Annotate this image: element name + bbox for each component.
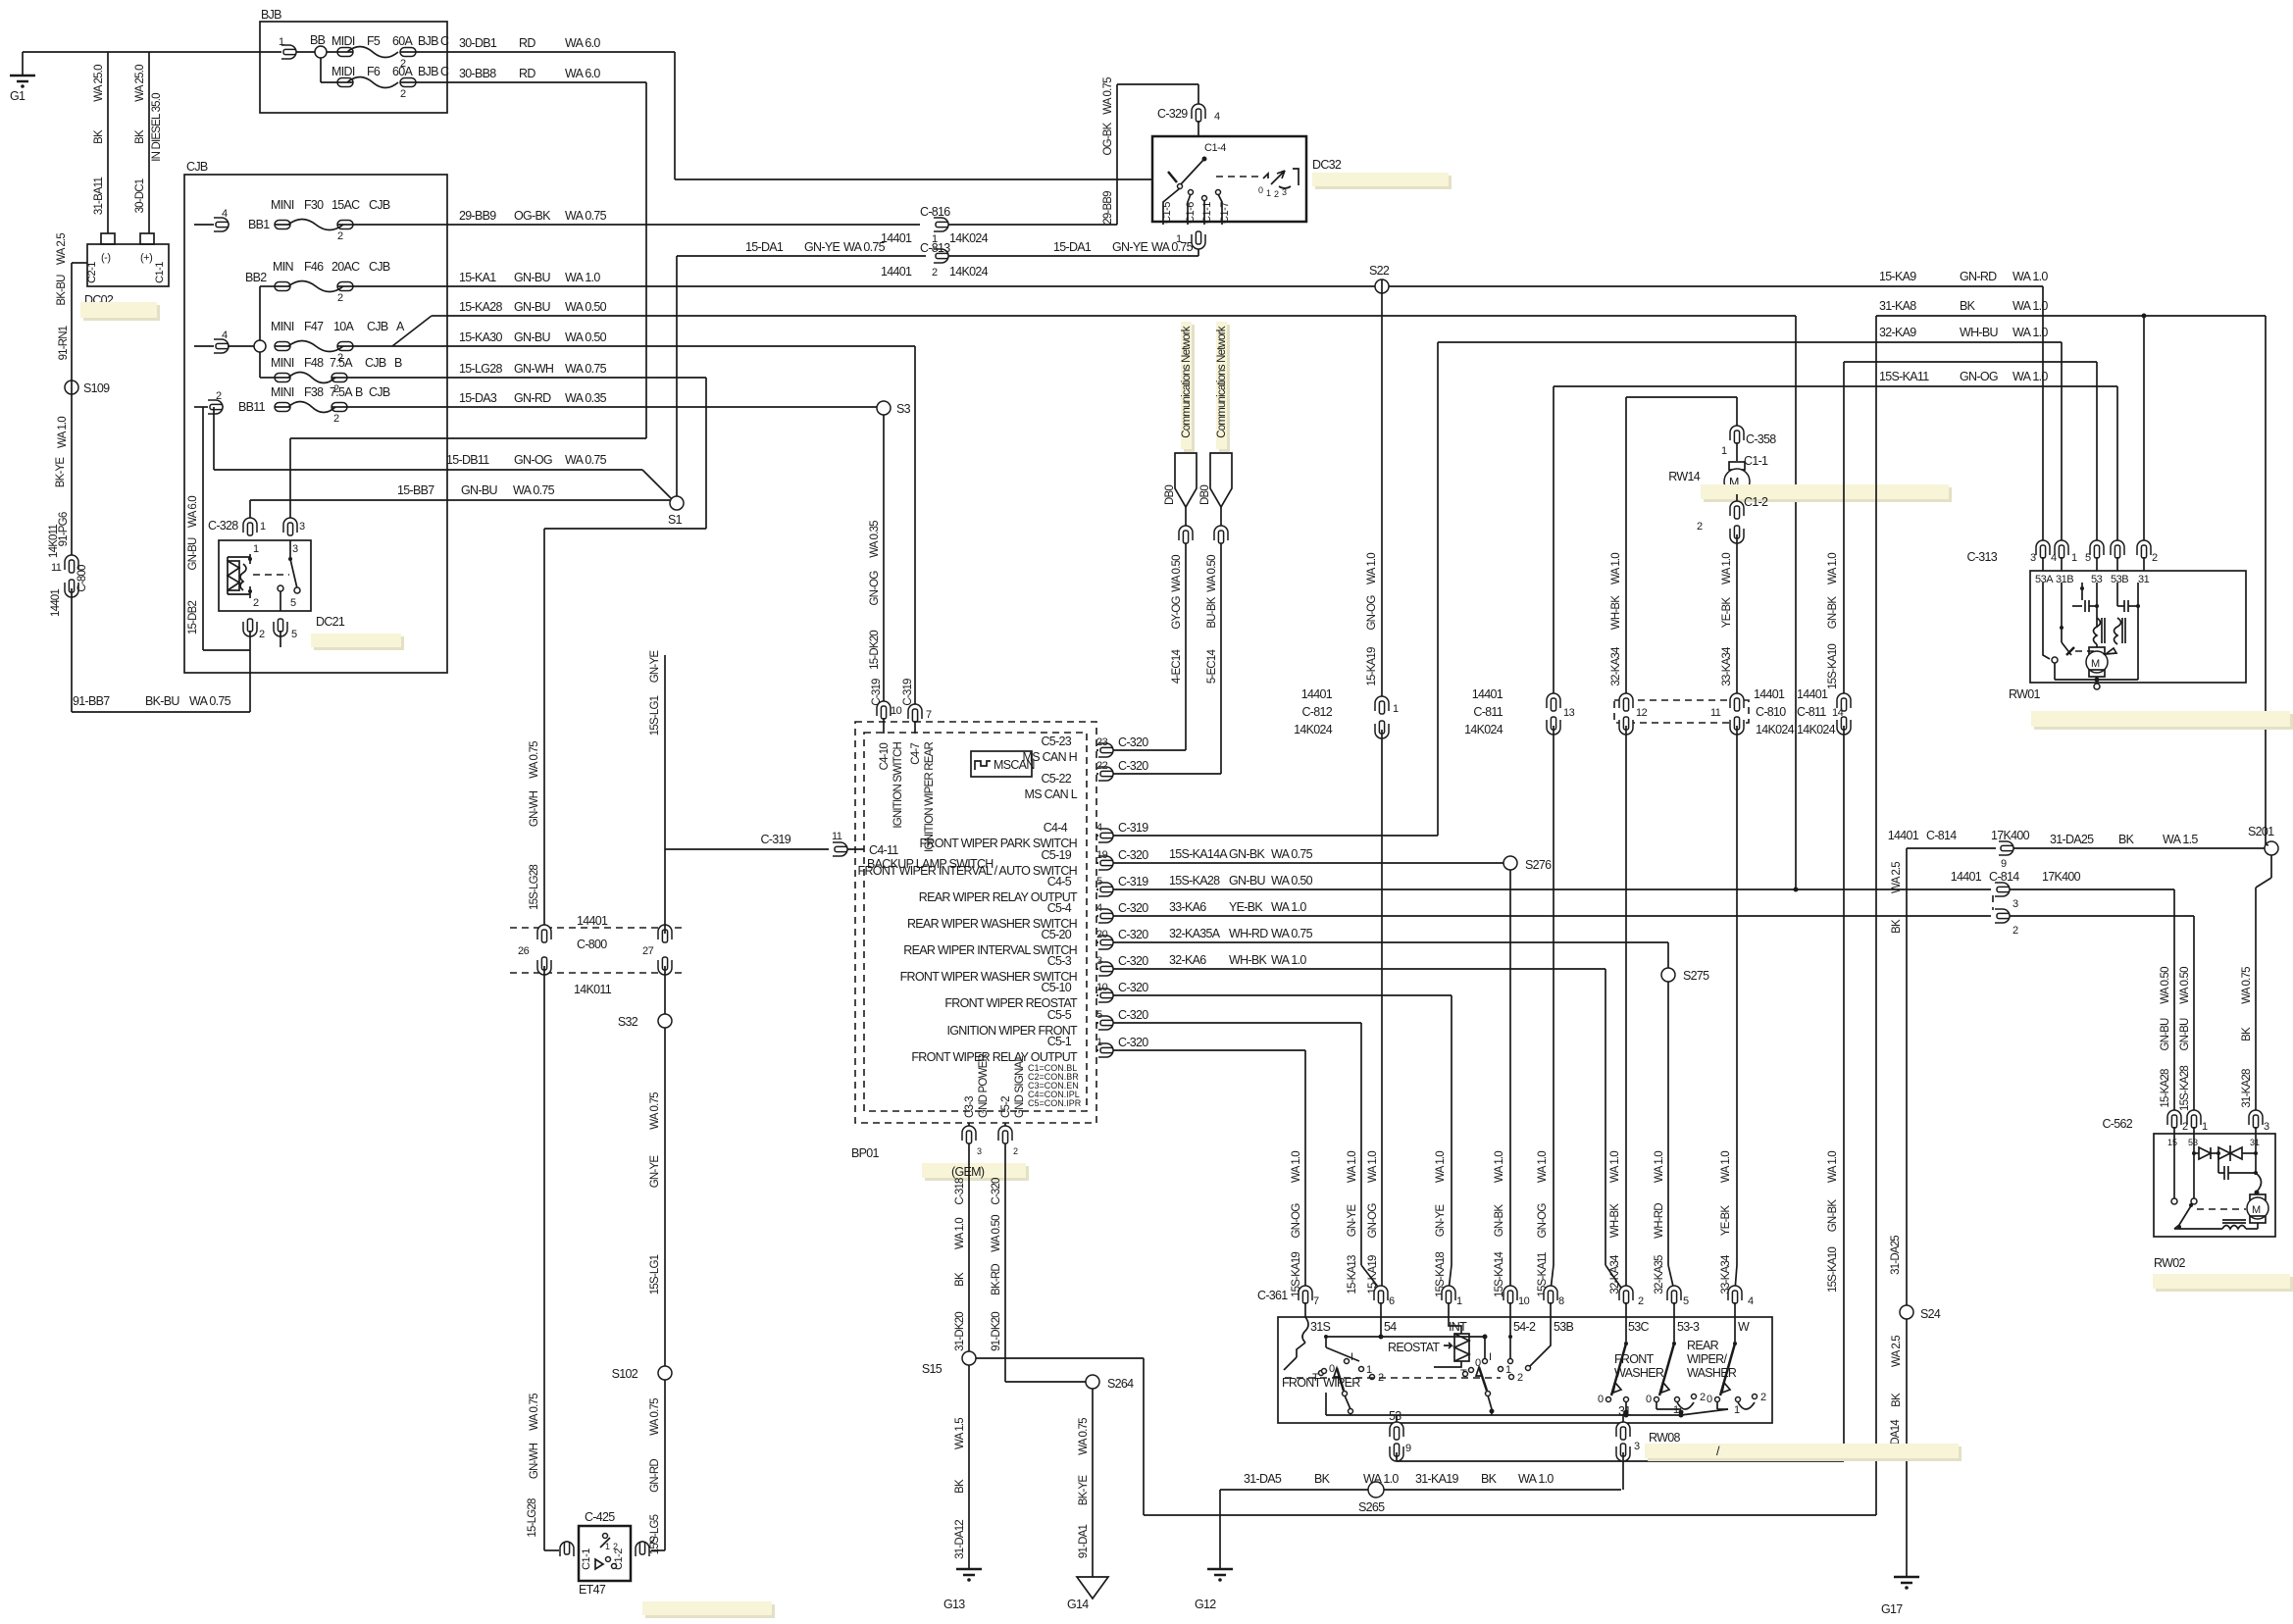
svg-text:S275: S275 [1683, 969, 1709, 983]
svg-text:M: M [2252, 1204, 2261, 1216]
svg-text:10A: 10A [333, 320, 355, 333]
svg-text:15S-KA28: 15S-KA28 [1169, 874, 1220, 888]
svg-text:WA 0.50: WA 0.50 [565, 300, 607, 314]
svg-text:WIPER/: WIPER/ [1687, 1352, 1727, 1366]
svg-text:WA 0.50: WA 0.50 [2160, 967, 2171, 1004]
svg-text:33-KA34: 33-KA34 [1721, 646, 1733, 686]
GEM inner dashed box [864, 733, 1087, 1111]
wire relay pin5 down [280, 631, 281, 647]
svg-text:1: 1 [1393, 703, 1399, 715]
svg-text:C-318: C-318 [954, 1178, 966, 1205]
svg-text:BK: BK [93, 129, 105, 144]
svg-text:14401: 14401 [577, 914, 608, 928]
svg-text:GN-RD: GN-RD [1960, 270, 1997, 283]
wire 29-BB9 [447, 209, 920, 225]
connector C-813 [881, 231, 989, 279]
svg-text:C-320: C-320 [1118, 901, 1148, 915]
svg-text:C-319: C-319 [1118, 821, 1148, 835]
svg-text:WA 1.0: WA 1.0 [1347, 1151, 1358, 1183]
svg-text:WA 0.75: WA 0.75 [565, 362, 607, 376]
svg-text:2: 2 [1700, 1392, 1706, 1403]
svg-text:MINI: MINI [271, 385, 294, 399]
svg-text:53B: 53B [1554, 1320, 1574, 1334]
svg-text:(-): (-) [101, 252, 111, 264]
svg-text:WA 25.0: WA 25.0 [93, 65, 105, 102]
connector C-800 pin 11 [50, 555, 88, 617]
svg-text:WH-BK: WH-BK [1610, 595, 1622, 630]
svg-text:BJB: BJB [261, 8, 281, 22]
svg-text:5: 5 [1096, 1009, 1102, 1021]
svg-text:C5-19: C5-19 [1041, 848, 1071, 862]
svg-text:C1-5: C1-5 [1161, 202, 1173, 224]
svg-text:15AC: 15AC [331, 198, 360, 212]
svg-text:IGNITION SWITCH: IGNITION SWITCH [892, 742, 904, 829]
svg-text:C4-11: C4-11 [869, 843, 898, 857]
svg-text:C5-23: C5-23 [1041, 735, 1071, 748]
svg-text:91-DA1: 91-DA1 [1078, 1525, 1090, 1559]
wire 15-DB2 internal CJB [187, 407, 250, 650]
svg-text:G14: G14 [1067, 1598, 1089, 1611]
svg-text:BJB: BJB [418, 34, 438, 48]
svg-text:BK: BK [2118, 833, 2135, 846]
ground G1 [10, 52, 35, 103]
ground G13 [943, 1569, 982, 1611]
svg-text:2: 2 [1013, 1146, 1018, 1156]
wire C-814 to C-562 pins [2010, 889, 2194, 1115]
svg-text:G1: G1 [10, 89, 25, 103]
svg-text:GN-YE: GN-YE [804, 240, 840, 254]
svg-text:11: 11 [832, 831, 842, 842]
svg-text:C4-5: C4-5 [1047, 875, 1072, 888]
svg-text:WASHER: WASHER [1614, 1366, 1664, 1380]
svg-text:G13: G13 [943, 1598, 965, 1611]
connector C-811 pin 14 on front wiper high trunk [1797, 362, 1851, 1461]
svg-text:14401: 14401 [1301, 687, 1333, 701]
svg-text:C-319: C-319 [902, 679, 914, 706]
wire MS CAN L riser [1206, 507, 1228, 774]
yellow bar RW08 [1648, 1446, 1962, 1461]
motor [2096, 644, 2098, 647]
svg-text:10: 10 [1518, 1295, 1530, 1307]
svg-text:I: I [1489, 1351, 1492, 1363]
svg-text:C5-1: C5-1 [1047, 1035, 1072, 1048]
svg-text:17K400: 17K400 [2042, 870, 2081, 884]
svg-text:BK-RD: BK-RD [991, 1264, 1002, 1295]
fuse F6 60A [321, 65, 449, 100]
svg-text:DC21: DC21 [316, 615, 345, 629]
wire GEM row C5-1 to C-361 pin7 [1096, 1036, 1305, 1291]
svg-text:WA 0.75: WA 0.75 [2241, 967, 2253, 1004]
trunk labels above pin4 [1720, 1151, 1732, 1294]
svg-text:30-DC1: 30-DC1 [134, 178, 146, 213]
svg-text:C-320: C-320 [1118, 848, 1148, 862]
bottom bus right [1492, 1414, 1626, 1416]
node DB0 MS CAN H flag [1164, 326, 1197, 507]
splice S109 [65, 381, 110, 395]
svg-text:WA 0.75: WA 0.75 [1271, 927, 1313, 940]
connector C-319 pin10 GEM [877, 701, 902, 734]
svg-text:1: 1 [1266, 188, 1271, 198]
svg-text:C-425: C-425 [585, 1510, 615, 1524]
battery DC02 [84, 233, 169, 307]
svg-text:32-KA35: 32-KA35 [1654, 1255, 1665, 1294]
inductor [2222, 1219, 2246, 1221]
svg-text:CJB: CJB [369, 385, 390, 399]
svg-text:5: 5 [1096, 876, 1102, 888]
svg-text:30-DB1: 30-DB1 [459, 36, 497, 50]
node BB [296, 33, 327, 82]
svg-text:31-DA25: 31-DA25 [2050, 833, 2094, 846]
svg-text:C-320: C-320 [1118, 736, 1148, 749]
svg-text:1: 1 [279, 36, 284, 48]
yellow bar DC32 [1315, 176, 1452, 189]
svg-text:31: 31 [2250, 1138, 2260, 1147]
wire x678 riser top [649, 650, 665, 934]
wire S264 to G14 [1078, 1389, 1093, 1577]
svg-text:C-320: C-320 [1118, 1008, 1148, 1022]
fuse row F30: feed connector [194, 208, 270, 231]
GEM outer dashed box [855, 722, 1096, 1123]
svg-text:WA 25.0: WA 25.0 [134, 65, 146, 102]
splice S22 [1369, 264, 1390, 293]
yellow bar RW02 [2156, 1277, 2293, 1292]
park switch contact [2042, 583, 2044, 647]
svg-text:F30: F30 [304, 198, 324, 212]
wire 15-DB11 row to S1 [214, 407, 672, 499]
svg-text:14K011: 14K011 [574, 983, 612, 996]
svg-text:C1-1: C1-1 [1201, 202, 1213, 224]
svg-text:OG-BK: OG-BK [1102, 122, 1114, 155]
svg-text:B: B [355, 385, 363, 399]
svg-text:60A: 60A [392, 34, 414, 48]
svg-text:2: 2 [613, 1542, 618, 1551]
svg-text:C4-7: C4-7 [910, 743, 922, 765]
relay switch [253, 540, 300, 611]
svg-text:1: 1 [2071, 552, 2077, 564]
svg-text:4: 4 [222, 330, 228, 341]
svg-text:GN-BU: GN-BU [2179, 1018, 2191, 1051]
svg-text:WA 1.0: WA 1.0 [1271, 900, 1306, 914]
svg-text:2: 2 [253, 597, 259, 609]
svg-text:15-DB2: 15-DB2 [187, 601, 199, 635]
svg-text:5-EC14: 5-EC14 [1206, 649, 1218, 685]
splice S264 [1086, 1375, 1134, 1391]
svg-text:WA 0.75: WA 0.75 [1271, 847, 1313, 861]
svg-text:3: 3 [2030, 552, 2036, 564]
svg-text:C-329: C-329 [1157, 107, 1188, 121]
svg-text:53B: 53B [2111, 574, 2128, 585]
relay DC21 box [208, 519, 345, 640]
wire GEM row 33-KA6 to C-814 [1096, 900, 1991, 923]
BP01 label and GEM yellow bar [851, 1146, 1029, 1181]
svg-text:0: 0 [1258, 185, 1263, 195]
svg-text:C-816: C-816 [920, 205, 950, 219]
wire GEM row 32-KA35A to C-361 pin 5 [1096, 927, 1668, 968]
svg-text:RW01: RW01 [2009, 687, 2040, 701]
svg-text:1: 1 [1176, 233, 1182, 245]
svg-text:5: 5 [290, 597, 296, 609]
trunk labels above pin8 [1537, 1151, 1549, 1297]
svg-text:WA 1.0: WA 1.0 [954, 1218, 966, 1249]
svg-text:15-DA1: 15-DA1 [1053, 240, 1092, 254]
svg-text:WA 6.0: WA 6.0 [565, 36, 600, 50]
svg-text:RW02: RW02 [2154, 1256, 2185, 1270]
svg-text:32-KA34: 32-KA34 [1610, 646, 1622, 686]
connector C-562 [2102, 1110, 2269, 1140]
wire 15-KA28 long row [392, 300, 1796, 346]
svg-text:13: 13 [1563, 707, 1575, 719]
svg-text:17K400: 17K400 [1991, 829, 2030, 842]
svg-text:33-KA6: 33-KA6 [1169, 900, 1206, 914]
GEM internal row labels [858, 735, 1079, 1064]
svg-text:F38: F38 [304, 385, 324, 399]
svg-text:31: 31 [1618, 1404, 1631, 1418]
svg-text:15S-KA11: 15S-KA11 [1879, 370, 1929, 383]
svg-text:DB0: DB0 [1199, 485, 1211, 505]
svg-text:WA 1.0: WA 1.0 [1610, 553, 1622, 584]
svg-text:WA 6.0: WA 6.0 [187, 496, 199, 528]
bus from pin 6 [1380, 1317, 1382, 1337]
wire GEM row C5-10 to C-361 pin1 [1096, 981, 1452, 1291]
svg-text:C5-3: C5-3 [1047, 954, 1072, 968]
fuse F5 60A [327, 34, 449, 70]
svg-text:GN-OG: GN-OG [1960, 370, 1998, 383]
svg-text:C-320: C-320 [1118, 981, 1148, 994]
svg-text:GN-BK: GN-BK [1827, 1199, 1839, 1233]
svg-text:YE-BK: YE-BK [1720, 1205, 1732, 1237]
svg-text:C-812: C-812 [1301, 705, 1332, 719]
svg-text:15-LG28: 15-LG28 [459, 362, 502, 376]
svg-text:C: C [440, 65, 449, 78]
svg-text:14401: 14401 [881, 265, 912, 279]
svg-text:29-BB9: 29-BB9 [459, 209, 496, 223]
svg-text:GN-WH: GN-WH [514, 362, 554, 376]
svg-text:15S-KA14A: 15S-KA14A [1169, 847, 1228, 861]
svg-text:WA 0.50: WA 0.50 [1271, 874, 1313, 888]
svg-text:GN-OG: GN-OG [1366, 595, 1378, 631]
connector C-816 and 29-BB9 wire to C-329 [920, 77, 1198, 231]
svg-text:GN-BU: GN-BU [2160, 1018, 2171, 1051]
svg-text:9: 9 [2001, 858, 2007, 870]
svg-text:4: 4 [1214, 111, 1220, 123]
svg-text:4: 4 [1096, 822, 1102, 834]
svg-text:GN-RD: GN-RD [649, 1459, 661, 1493]
svg-text:WA 1.0: WA 1.0 [1827, 553, 1839, 584]
svg-text:BB: BB [310, 33, 326, 47]
svg-text:RW08: RW08 [1649, 1431, 1680, 1445]
svg-text:53C: 53C [1628, 1320, 1650, 1334]
svg-text:GN-OG: GN-OG [1291, 1203, 1302, 1239]
trunk labels above pin2 [1609, 1151, 1621, 1294]
wire GEM row C5-5 to C-361 pin6 diagonal [1096, 1008, 1381, 1291]
svg-text:C1-6: C1-6 [1185, 202, 1197, 224]
svg-text:32-KA6: 32-KA6 [1169, 953, 1206, 967]
svg-text:WA 1.5: WA 1.5 [2163, 833, 2198, 846]
fuse row F38 BB11 [194, 385, 447, 425]
svg-text:53: 53 [1389, 1409, 1401, 1423]
wire battery negative riser 31-BA11 [93, 52, 108, 233]
splice S3 [877, 401, 911, 416]
svg-text:31B: 31B [2056, 574, 2073, 585]
svg-text:C1-4: C1-4 [1204, 142, 1226, 154]
svg-text:CJB: CJB [369, 260, 390, 274]
svg-text:2: 2 [1274, 189, 1279, 199]
svg-text:GN-YE: GN-YE [1347, 1204, 1358, 1238]
svg-text:BK-BU: BK-BU [145, 694, 179, 708]
wire trunks below C-810 to C-361 [1625, 726, 1627, 1291]
svg-text:4-EC14: 4-EC14 [1171, 649, 1183, 685]
svg-text:C-328: C-328 [208, 519, 238, 533]
svg-text:GN-YE: GN-YE [649, 1155, 661, 1189]
svg-text:15-KA28: 15-KA28 [2160, 1069, 2171, 1108]
svg-text:15-KA28: 15-KA28 [459, 300, 502, 314]
ground G17 [1881, 1577, 1919, 1616]
svg-text:3: 3 [977, 1146, 982, 1156]
svg-text:RD: RD [519, 67, 535, 80]
svg-text:MINI: MINI [271, 198, 294, 212]
svg-text:C-810: C-810 [1756, 705, 1786, 719]
svg-text:GN-BU: GN-BU [514, 330, 550, 344]
svg-text:WA 0.75: WA 0.75 [513, 483, 555, 497]
wire row y=394 15S-KA11 to C-313 53B [1554, 370, 2117, 545]
field coils [2094, 618, 2101, 644]
svg-text:1: 1 [1721, 445, 1727, 457]
wire 30-BB8 BJB to relay DC21 pin3 [290, 67, 646, 523]
connector C-800 pins 26 27 [510, 914, 687, 996]
yellow bar ET47 [645, 1604, 775, 1618]
svg-text:15-DB11: 15-DB11 [446, 453, 489, 467]
svg-text:22: 22 [1096, 760, 1108, 772]
svg-text:WA 1.0: WA 1.0 [1291, 1151, 1302, 1183]
svg-text:GN-BU: GN-BU [514, 300, 550, 314]
svg-text:5: 5 [291, 629, 297, 640]
svg-text:15S-KA28: 15S-KA28 [2179, 1066, 2191, 1111]
svg-text:C-320: C-320 [1118, 954, 1148, 968]
svg-text:S264: S264 [1107, 1377, 1134, 1391]
svg-text:53: 53 [2188, 1138, 2198, 1147]
svg-text:S102: S102 [612, 1367, 638, 1381]
svg-text:IN DIESEL 35.0: IN DIESEL 35.0 [151, 93, 163, 162]
svg-text:1: 1 [260, 521, 266, 533]
svg-text:27: 27 [642, 945, 654, 957]
svg-text:WA 0.75: WA 0.75 [649, 1398, 661, 1436]
svg-text:15-KA9: 15-KA9 [1879, 270, 1916, 283]
svg-text:WH-BU: WH-BU [1960, 326, 1999, 339]
splice S24 [1900, 1305, 1941, 1321]
wire 15-DA1 right to DC32 [948, 231, 1205, 256]
svg-text:(GEM): (GEM) [951, 1165, 985, 1179]
svg-text:BK-YE: BK-YE [55, 457, 67, 488]
connector C-358 [1721, 426, 1776, 468]
svg-text:WA 1.0: WA 1.0 [1271, 953, 1306, 967]
wire S22 trunk down to C-812 and C-361 pin 6 [1366, 293, 1382, 700]
svg-text:23: 23 [1096, 736, 1108, 748]
svg-text:31-DA5: 31-DA5 [1244, 1472, 1282, 1486]
svg-text:GN-BK: GN-BK [1827, 596, 1839, 630]
svg-text:15S-KA10: 15S-KA10 [1827, 1247, 1839, 1293]
svg-text:WA 0.75: WA 0.75 [565, 453, 607, 467]
svg-text:WA 0.35: WA 0.35 [869, 521, 881, 558]
svg-text:2: 2 [337, 230, 343, 242]
svg-text:30-BB8: 30-BB8 [459, 67, 496, 80]
wire ground rail to battery [23, 51, 108, 53]
svg-text:WH-BK: WH-BK [1609, 1203, 1621, 1238]
svg-text:C-320: C-320 [991, 1178, 1002, 1205]
svg-text:2: 2 [1638, 1295, 1644, 1307]
svg-text:S22: S22 [1369, 264, 1390, 278]
wire 31-KA28 from row322 down to S201 [2265, 316, 2267, 844]
RW02 box [2154, 1134, 2275, 1270]
svg-text:4: 4 [1096, 902, 1102, 914]
svg-text:1: 1 [1096, 1037, 1102, 1048]
svg-text:WA 1.0: WA 1.0 [1366, 553, 1378, 584]
svg-text:WA 2.5: WA 2.5 [1891, 1336, 1903, 1367]
svg-text:WA 1.0: WA 1.0 [57, 417, 69, 448]
fuse row F46: BB2 [245, 260, 447, 378]
yellow label bar DC02 [83, 305, 160, 321]
trunk labels above pin10 [1494, 1151, 1505, 1297]
svg-text:GN-OG: GN-OG [1537, 1203, 1549, 1239]
svg-text:F48: F48 [304, 356, 324, 370]
svg-text:WA 0.75: WA 0.75 [843, 240, 886, 254]
svg-text:F5: F5 [367, 34, 381, 48]
svg-text:2: 2 [333, 413, 339, 425]
svg-text:54-2: 54-2 [1513, 1320, 1536, 1334]
svg-text:C-814: C-814 [1926, 829, 1957, 842]
svg-text:C-320: C-320 [1118, 759, 1148, 773]
svg-text:15-DA3: 15-DA3 [459, 391, 497, 405]
splice S275 [1661, 968, 1709, 1291]
svg-text:C5-20: C5-20 [1041, 928, 1071, 941]
svg-text:WA 1.0: WA 1.0 [1721, 553, 1733, 584]
svg-text:1: 1 [1456, 1295, 1462, 1307]
svg-text:C-313: C-313 [1966, 550, 1997, 564]
svg-text:BK: BK [1891, 919, 1903, 934]
svg-text:14K024: 14K024 [949, 231, 989, 245]
svg-text:GN-BK: GN-BK [1229, 847, 1265, 861]
svg-text:WA 0.50: WA 0.50 [991, 1215, 1002, 1252]
svg-text:15-LG28: 15-LG28 [527, 1498, 538, 1538]
wire 31-KA8 right segment row 322 [1876, 299, 2266, 1515]
svg-text:7.5A: 7.5A [330, 385, 353, 399]
svg-text:DC32: DC32 [1312, 158, 1342, 172]
svg-text:5: 5 [2085, 552, 2091, 564]
svg-text:14K024: 14K024 [1756, 723, 1795, 736]
MSCAN logo box [971, 751, 1035, 777]
svg-text:4: 4 [1748, 1295, 1754, 1307]
svg-text:GN-OG: GN-OG [869, 571, 881, 606]
wire 15-LG28 row to C-800/ET47 [447, 362, 706, 937]
svg-text:1: 1 [932, 233, 938, 245]
svg-text:S1: S1 [668, 513, 683, 527]
svg-text:CJB: CJB [369, 198, 390, 212]
svg-text:GN-YE: GN-YE [1112, 240, 1147, 254]
connector C1-2 below RW14 [1697, 494, 1768, 543]
fuse F30 15AC [271, 198, 447, 242]
splice S102 [612, 1366, 672, 1554]
connector C-319 pin 11 into C4-11 [665, 831, 864, 856]
svg-text:YE-BK: YE-BK [1721, 597, 1733, 629]
capacitors [2080, 586, 2084, 590]
svg-text:FRONT WIPER RELAY OUTPUT: FRONT WIPER RELAY OUTPUT [911, 1050, 1078, 1064]
svg-text:11: 11 [1710, 707, 1721, 719]
bottom bus left [1350, 1413, 1351, 1415]
trunk labels above pin5 [1654, 1151, 1665, 1294]
svg-text:2: 2 [1760, 1392, 1766, 1403]
svg-text:BB1: BB1 [248, 218, 270, 231]
svg-text:S265: S265 [1358, 1500, 1385, 1514]
svg-text:15-KA19: 15-KA19 [1366, 647, 1378, 686]
